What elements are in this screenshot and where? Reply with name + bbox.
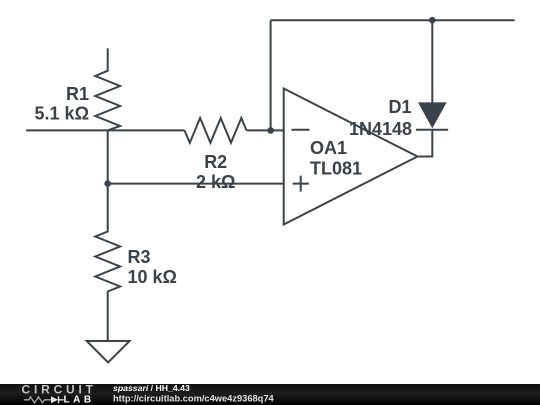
svg-text:2 kΩ: 2 kΩ [196, 172, 235, 192]
svg-text:TL081: TL081 [310, 159, 362, 179]
svg-text:10 kΩ: 10 kΩ [128, 267, 177, 287]
junction node at R1/R3/plus wire [104, 180, 111, 187]
op-amp OA1 triangle [284, 89, 418, 225]
wire top horizontal [271, 19, 515, 21]
wire op-amp output [418, 130, 433, 157]
svg-text:R2: R2 [204, 152, 227, 172]
wire left input [26, 129, 185, 131]
svg-text:D1: D1 [388, 97, 411, 117]
svg-text:R1: R1 [66, 84, 89, 104]
junction node at top wire / diode [429, 17, 436, 24]
diode D1 triangle [418, 102, 447, 128]
wire diode anode vertical [431, 20, 433, 103]
ground [87, 341, 130, 362]
logo wire zigzag [24, 397, 51, 403]
svg-text:5.1 kΩ: 5.1 kΩ [35, 104, 89, 124]
wire R2 to op-amp minus input [247, 129, 284, 131]
resistor R3 [95, 184, 120, 341]
resistor R2 [185, 118, 247, 143]
svg-text:OA1: OA1 [310, 138, 347, 158]
wire R1 bottom to plus-node [107, 130, 109, 183]
wire feedback vertical [270, 20, 272, 130]
op-amp plus symbol [293, 176, 309, 192]
op-amp minus symbol [292, 129, 310, 131]
svg-text:1N4148: 1N4148 [349, 119, 412, 139]
svg-text:spassari / HH_4.43: spassari / HH_4.43 [113, 383, 190, 393]
svg-text:R3: R3 [128, 247, 151, 267]
junction node at feedback/minus input [267, 127, 274, 134]
diode D1 cathode bar [416, 129, 448, 131]
svg-text:LAB: LAB [64, 395, 95, 405]
svg-text:http://circuitlab.com/c4we4z93: http://circuitlab.com/c4we4z9368q74 [113, 394, 275, 404]
wire plus input [108, 183, 284, 185]
resistor R1 [95, 48, 120, 130]
logo diode symbol [51, 396, 58, 403]
